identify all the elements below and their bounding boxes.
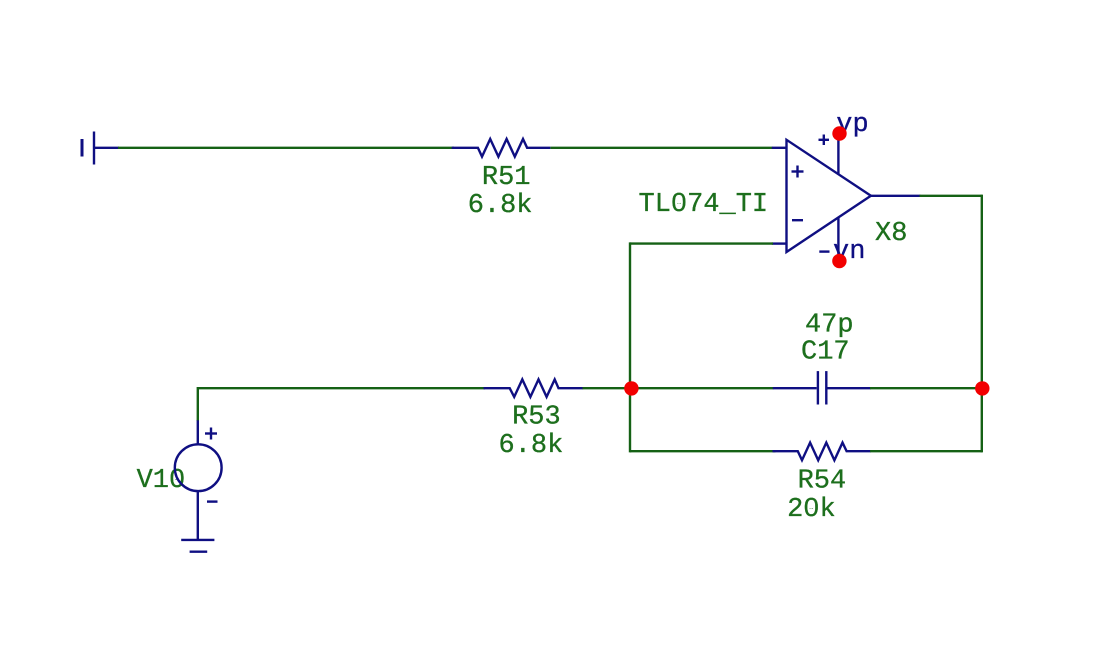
- wire: V10 node to R53: [198, 387, 485, 389]
- voltage source V10 top lead: [197, 420, 199, 445]
- voltage source V10 circle: [175, 444, 222, 491]
- op-amp + input stub: [772, 147, 787, 149]
- wire: R51 to op-amp + input: [551, 147, 773, 149]
- wire: C17 to output node: [870, 387, 982, 389]
- wire: feedback vertical: [629, 242, 631, 452]
- svg-text:47p: 47p: [805, 310, 854, 340]
- resistor R53: [484, 379, 584, 397]
- voltage source V10 bottom lead: [197, 491, 199, 541]
- op-amp vn pin wire: [837, 217, 839, 261]
- resistor R54: [773, 443, 871, 461]
- op-amp output stub: [871, 195, 921, 197]
- svg-text:6.8k: 6.8k: [468, 191, 533, 221]
- op-amp X8 body: [787, 140, 871, 252]
- wire: input to R51: [118, 147, 454, 149]
- svg-text:20k: 20k: [787, 495, 836, 525]
- wire: bottom left segment: [630, 450, 776, 452]
- input port I label bar: [81, 139, 84, 157]
- svg-text:R53: R53: [512, 403, 561, 433]
- wire: R54 to right rail: [870, 450, 982, 452]
- voltage source V10 + marker: [205, 428, 217, 440]
- svg-text:X8: X8: [875, 219, 907, 249]
- junction dot vn: [832, 254, 846, 268]
- wire: R53 to inverting node: [583, 387, 632, 389]
- svg-text:6.8k: 6.8k: [499, 431, 564, 461]
- junction dot output node: [975, 381, 989, 395]
- wire: feedback horizontal from - input: [630, 242, 773, 244]
- svg-text:R51: R51: [482, 163, 531, 193]
- wire: node down to V10 plus terminal: [197, 387, 199, 421]
- op-amp - input stub: [772, 242, 787, 244]
- voltage source V10 - marker: [207, 500, 218, 502]
- op-amp vp pin wire: [837, 134, 839, 175]
- capacitor C17 left lead: [773, 387, 817, 389]
- input port I pin bar: [93, 132, 95, 165]
- op-amp internal + sign: [792, 166, 804, 178]
- resistor R51: [452, 139, 551, 157]
- op-amp internal - sign: [792, 219, 803, 221]
- ground bar short: [190, 551, 208, 553]
- wire: right rail vertical: [981, 195, 983, 453]
- ground bar wide: [181, 539, 214, 541]
- junction dot vp: [832, 126, 846, 140]
- input port I stub: [94, 147, 119, 149]
- wire: inverting node to C17: [631, 387, 773, 389]
- capacitor C17 right lead: [828, 387, 871, 389]
- svg-text:R54: R54: [798, 467, 847, 497]
- capacitor C17 plates: [818, 371, 826, 404]
- junction dot inverting node: [624, 381, 638, 395]
- wire: op-amp output to right rail: [920, 195, 982, 197]
- op-amp vn - marker: [819, 250, 829, 252]
- svg-text:TL074_TI: TL074_TI: [639, 190, 769, 220]
- op-amp vp + marker: [819, 135, 830, 146]
- svg-text:C17: C17: [801, 337, 850, 367]
